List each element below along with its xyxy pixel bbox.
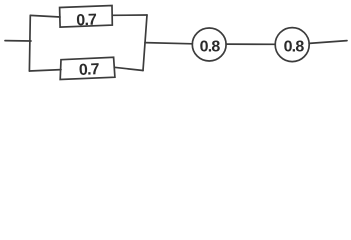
- svg-text:0.7: 0.7: [79, 61, 100, 79]
- wire right vertical bus: [143, 15, 147, 71]
- wire input lead: [5, 40, 31, 42]
- wire left vertical bus: [28, 15, 31, 71]
- svg-text:0.8: 0.8: [284, 39, 305, 56]
- wire series link 1: [145, 43, 192, 44]
- resistor block R2 value 0.7 (bottom): [60, 57, 115, 79]
- wire top branch left: [30, 15, 60, 17]
- wire bottom branch left: [29, 70, 61, 71]
- svg-text:0.8: 0.8: [200, 38, 221, 55]
- wire output lead: [309, 41, 347, 44]
- svg-text:0.7: 0.7: [76, 12, 97, 30]
- component C1 circle value 0.8: [192, 28, 226, 61]
- resistor block R1 value 0.7 (top): [60, 6, 113, 28]
- wire series link 2: [226, 43, 275, 45]
- wire top branch right: [112, 14, 147, 16]
- wire bottom branch right: [114, 67, 143, 70]
- component C2 circle value 0.8: [275, 28, 309, 62]
